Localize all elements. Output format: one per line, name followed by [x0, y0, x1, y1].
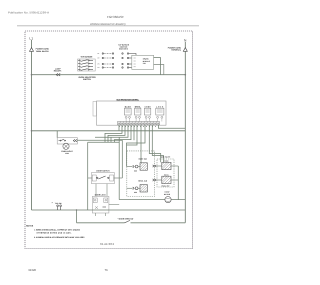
relay K4 lock motor: [156, 105, 164, 118]
wire L1 drop from label: [31, 40, 33, 48]
wire pin drop to light line: [133, 125, 135, 140]
svg-text:SWITCH: SWITCH: [83, 78, 91, 81]
connector triangle power cord N: [183, 48, 187, 52]
svg-text:ELECTRONIC OVEN CONTROL: ELECTRONIC OVEN CONTROL: [117, 99, 140, 102]
wire pin drop into igniter box: [127, 125, 146, 167]
oven light lamp: [63, 143, 69, 149]
selector switch contacts row 2: [78, 63, 93, 65]
door switch right terminal: [110, 175, 114, 181]
header rule line: [17, 25, 199, 27]
svg-text:FGF366ASF: FGF366ASF: [107, 15, 124, 19]
text inside spark module box: [143, 58, 151, 66]
svg-text:L1: L1: [29, 36, 33, 40]
wire pin staircase 3: [108, 125, 125, 142]
wire pin staircase 1: [118, 125, 120, 131]
wire valve2 in: [157, 179, 162, 181]
connector triangle power cord L1: [30, 48, 34, 52]
wire riser A x119.2: [118, 137, 120, 199]
wire main bus y131: [32, 130, 186, 132]
wire out of door switch: [114, 177, 123, 179]
wire broil unit left: [127, 187, 133, 189]
wire valve1 in: [157, 165, 162, 167]
pin numbers under strip: [119, 125, 156, 127]
svg-text:OTHERWISE NOTED AND 18 AWG.: OTHERWISE NOTED AND 18 AWG.: [37, 232, 73, 235]
wire from module to N riser: [154, 57, 161, 59]
svg-text:TOP BURNER: TOP BURNER: [80, 56, 93, 59]
wire valve2 out: [171, 179, 178, 181]
svg-text:*: *: [52, 202, 53, 205]
junction L1 x top bus: [31, 74, 33, 76]
svg-text:Publication No. 5995411299-A: Publication No. 5995411299-A: [8, 10, 49, 14]
wire bottom y223 right part: [131, 222, 186, 224]
bake valve circle: [135, 165, 138, 168]
schematic frame border: [25, 31, 193, 249]
relay pin stubs to strip: [126, 118, 162, 121]
junction bottom run branch: [76, 209, 77, 210]
svg-text:BAKE: BAKE: [125, 105, 132, 108]
wire door switch to lock right: [106, 184, 108, 197]
wire oven light to control: [77, 139, 122, 141]
svg-text:42328: 42328: [28, 268, 36, 272]
door switch left terminal: [92, 175, 96, 181]
wire branch down x76.5: [76, 210, 78, 223]
wire valve to igniter bake: [138, 166, 140, 168]
selector switch contacts row 4: [78, 69, 93, 71]
spark module box: [132, 55, 154, 69]
thermostat contact row 3: [102, 63, 132, 64]
oven light switch contacts: [59, 139, 66, 140]
junction L1 x main bus: [31, 130, 33, 132]
connector bracket left of control: [93, 102, 97, 117]
wire bottom y223 left part: [77, 222, 125, 224]
svg-text:1. WIRES SHOWN ARE ALL COPPER: 1. WIRES SHOWN ARE ALL COPPER AT 105°C U…: [34, 228, 81, 231]
switch blade door open: [125, 220, 131, 222]
wire pin drop to bake igniter: [140, 125, 142, 163]
wire pin to neutral: [158, 125, 185, 129]
electronic oven control box: [97, 101, 167, 125]
pin labels thermostat rows: [98, 52, 100, 69]
thermostat contact row 1: [102, 53, 136, 56]
thermostat contact row 2: [102, 57, 132, 58]
svg-text:DOOR LOCK: DOOR LOCK: [95, 193, 107, 196]
wire L1 vertical bus: [31, 51, 33, 210]
bake igniter assembly dashed box: [127, 151, 155, 197]
oven light chevron connector: [73, 139, 77, 142]
svg-text:GAS VALVE: GAS VALVE: [161, 156, 171, 159]
svg-text:BROIL: BROIL: [135, 105, 142, 108]
connector chevrons on top bus: [56, 73, 60, 76]
svg-text:* DOOR OPEN SW: * DOOR OPEN SW: [118, 218, 134, 221]
wire riser to top bus: [160, 58, 162, 75]
svg-text:BAKE IGN: BAKE IGN: [139, 157, 148, 160]
junction N x top bus: [185, 74, 187, 76]
door lock box: [92, 196, 109, 213]
wire N vertical bus: [184, 51, 186, 223]
wire door switch to lock left: [95, 184, 97, 197]
svg-text:LOCK: LOCK: [156, 105, 164, 108]
wire bake unit left: [127, 166, 133, 168]
svg-text:SWITCHES: SWITCHES: [119, 48, 129, 51]
thermostat contact row 4: [102, 67, 132, 68]
wire into door switch: [88, 177, 93, 179]
wire collector to door switch: [88, 142, 120, 210]
wire pin drop to broil feed: [127, 125, 138, 145]
valve coil 1 hatched: [162, 160, 171, 170]
arrow chevrons valve 1: [153, 165, 157, 167]
wire valve1 out: [171, 165, 178, 167]
door lock left terminal: [93, 198, 97, 203]
wire pin drop to valve 1: [149, 125, 160, 163]
wire pin drop to valve 2: [152, 125, 163, 163]
door lock right terminal: [104, 198, 108, 203]
wire L1 bottom run y210: [32, 209, 186, 211]
relay K2 broil: [135, 105, 142, 118]
oven selector switch box: [78, 59, 96, 71]
selector switch contacts row 1: [78, 60, 93, 62]
svg-text:314F302: 314F302: [100, 242, 114, 246]
arrow chevrons valve 2: [153, 179, 157, 181]
broil igniter element hatched: [140, 185, 147, 192]
wire riser B x122.3: [121, 140, 123, 178]
oven light loop outline: [57, 138, 77, 144]
wire pin staircase 4: [95, 125, 128, 142]
svg-text:TERMINAL: TERMINAL: [171, 49, 182, 52]
bake igniter element hatched: [140, 163, 147, 170]
door switch box: [91, 173, 114, 184]
svg-text:2. SYMBOLS ARE IN ACCORDANCE: 2. SYMBOLS ARE IN ACCORDANCE WITH ANSI Y…: [34, 236, 86, 239]
svg-text:40W: 40W: [65, 152, 69, 155]
svg-text:CONV: CONV: [145, 105, 152, 108]
relay K1 bake: [124, 105, 131, 118]
page background: [0, 0, 218, 285]
door lock inner marks: [95, 206, 106, 209]
wire N drop from label: [184, 42, 186, 48]
wire pin staircase 5: [114, 125, 131, 142]
door switch contacts: [97, 176, 109, 179]
selector switch contacts row 3: [78, 66, 93, 68]
wire valve outputs riser: [177, 166, 179, 200]
wire horizontal top bus y75: [32, 74, 186, 76]
wire module lower stub: [154, 65, 164, 75]
svg-text:DOOR SWITCH: DOOR SWITCH: [96, 170, 110, 173]
svg-text:NOTES: NOTES: [26, 225, 34, 228]
wire door lock to riser: [109, 204, 119, 206]
control pin strip: [118, 122, 160, 125]
svg-text:BROIL IGN: BROIL IGN: [138, 179, 147, 182]
valve coil 2 hatched: [162, 174, 171, 184]
wire valve to igniter broil: [138, 187, 140, 189]
svg-text:TERM. BLOCK: TERM. BLOCK: [36, 50, 50, 53]
svg-text:76: 76: [105, 268, 109, 272]
svg-text:RECEPT.: RECEPT.: [54, 70, 63, 73]
door lock bottom stubs: [96, 213, 106, 216]
svg-text:MOTOR: MOTOR: [164, 193, 171, 196]
thermal cutout terminals on bottom run: [57, 205, 62, 210]
wire motor line y199.6: [119, 199, 185, 201]
broil valve circle: [135, 187, 138, 190]
spark module inner pin marks: [134, 58, 136, 67]
wire pin staircase 2: [105, 125, 122, 142]
oven light branch drop: [56, 131, 58, 138]
relay K3 conv: [144, 105, 151, 118]
convection motor circle: [165, 197, 171, 203]
gas valve dashed box: [157, 159, 174, 187]
